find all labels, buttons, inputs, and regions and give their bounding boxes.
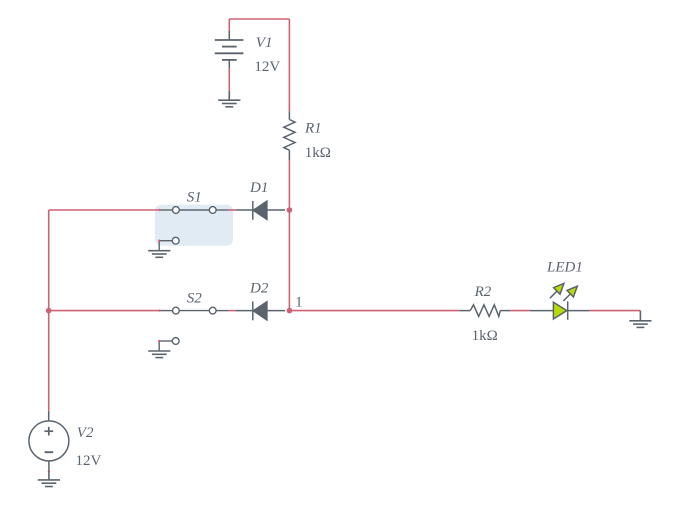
- junction dot left at S2 row: [46, 308, 52, 314]
- svg-text:V2: V2: [77, 425, 94, 441]
- svg-text:LED1: LED1: [546, 260, 583, 276]
- wire left vertical to V2: [48, 210, 50, 411]
- svg-text:12V: 12V: [76, 453, 102, 469]
- svg-text:1: 1: [295, 294, 303, 310]
- svg-text:R2: R2: [474, 284, 492, 300]
- svg-text:1kΩ: 1kΩ: [472, 328, 498, 344]
- junction dot D1/R1: [287, 207, 293, 213]
- diode D2: [236, 302, 285, 321]
- wire R2 to LED1: [510, 310, 530, 312]
- node dot S2 left terminal: [158, 309, 160, 311]
- wire S2 to D2: [229, 310, 236, 312]
- svg-text:S1: S1: [187, 190, 202, 206]
- svg-text:D2: D2: [249, 280, 269, 296]
- LED1 arrow 2: [563, 286, 577, 301]
- ground under V2: [38, 471, 60, 486]
- node dot S1 throw corner: [158, 240, 160, 242]
- wire left to S2: [49, 310, 160, 312]
- diode D1: [236, 201, 285, 220]
- wire top horizontal V1 to R1 branch: [229, 18, 289, 20]
- wire right vertical down to R1: [288, 19, 290, 111]
- svg-text:D1: D1: [249, 180, 268, 196]
- wire node 1 to R2: [289, 310, 459, 312]
- battery V1: [215, 31, 244, 69]
- node dot S1 left terminal: [158, 209, 160, 211]
- ground under S1: [148, 251, 170, 258]
- svg-text:V1: V1: [256, 35, 273, 51]
- wire S1 to D1: [229, 209, 236, 211]
- resistor R1: [284, 111, 295, 160]
- wire V1 top lead stub: [228, 19, 230, 31]
- ground right of LED1: [629, 311, 651, 328]
- wire LED1 to ground: [589, 310, 640, 312]
- svg-text:S2: S2: [187, 290, 203, 306]
- ground under V1: [218, 91, 240, 107]
- node dot S2 throw corner: [158, 340, 160, 342]
- switch S1: [159, 207, 229, 251]
- junction dot node 1: [287, 308, 293, 314]
- node dot V2 bottom terminal: [48, 470, 50, 472]
- ground under S2: [148, 351, 170, 358]
- wire left to S1: [49, 209, 160, 211]
- LED1 arrow 1: [550, 283, 564, 298]
- svg-text:1kΩ: 1kΩ: [305, 145, 331, 161]
- svg-text:12V: 12V: [254, 59, 280, 75]
- wire R1 bottom to node 1 (vertical through D1 junction): [288, 160, 290, 310]
- voltage source V2: [29, 411, 69, 471]
- wire battery bottom to ground: [228, 69, 230, 91]
- svg-text:R1: R1: [304, 120, 322, 136]
- resistor R2: [459, 305, 510, 317]
- S1 selection highlight: [155, 205, 233, 246]
- LED LED1: [530, 301, 590, 319]
- switch S2: [159, 307, 229, 351]
